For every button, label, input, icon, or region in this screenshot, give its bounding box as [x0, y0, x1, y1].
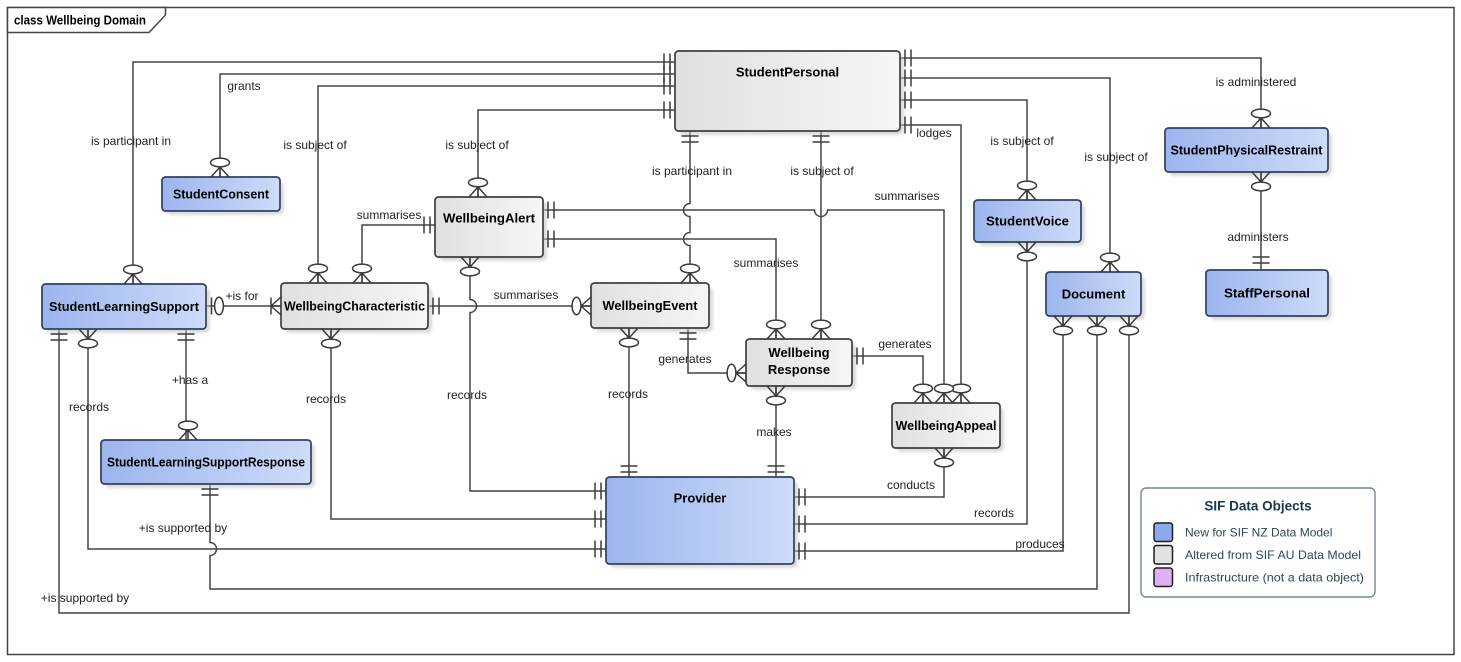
- one-and-only-one bars at WellbeingAlert right (summarises to appeal): [548, 202, 554, 219]
- entity WellbeingAppeal: [892, 403, 1004, 452]
- zero-or-many crow's foot at StudentConsent top: [211, 158, 230, 177]
- entity WellbeingResponse: [746, 339, 856, 390]
- label conducts: [887, 478, 935, 492]
- wire generates: WellbeingEvent to WellbeingResponse: [688, 328, 746, 373]
- wire is participant in: StudentPersonal to WellbeingEvent (jumps): [684, 131, 691, 283]
- one-and-only-one bars at StudentPersonal right (is subject of StudentVoice): [905, 92, 911, 109]
- wire lodges: StudentPersonal to WellbeingAppeal: [900, 125, 961, 403]
- label is participant in: [652, 164, 732, 178]
- one-and-only-one bars above StaffPersonal (administers): [1253, 257, 1270, 263]
- svg-text:lodges: lodges: [916, 126, 951, 140]
- wire is subject of: StudentPersonal to StudentVoice: [900, 100, 1027, 200]
- wire summarises: WellbeingCharacteristic to WellbeingEvent: [428, 305, 591, 307]
- svg-text:Wellbeing: Wellbeing: [768, 345, 829, 360]
- one-and-only-one bars at WellbeingAlert right (summarises to response): [548, 231, 554, 248]
- svg-text:is participant in: is participant in: [91, 134, 171, 148]
- label +has a: [172, 373, 209, 387]
- wire generates: WellbeingResponse to WellbeingAppeal: [852, 356, 923, 403]
- label is subject of: [283, 138, 347, 152]
- zero-or-many crow's foot at StudentPhysicalRestraint bottom: [1252, 172, 1271, 191]
- label lodges: [916, 126, 951, 140]
- label summarises: [357, 208, 422, 222]
- entity StudentLearningSupportResponse: [101, 440, 315, 488]
- label is participant in: [91, 134, 171, 148]
- svg-text:WellbeingCharacteristic: WellbeingCharacteristic: [284, 299, 425, 314]
- entity WellbeingEvent: [591, 283, 713, 332]
- label is subject of: [790, 164, 854, 178]
- one-and-only-one bars at StudentPersonal right (is administered): [905, 50, 911, 67]
- zero-or-many crow's foot at WellbeingResponse left: [727, 364, 746, 382]
- wire summarises: WellbeingAlert to WellbeingAppeal (jump): [543, 210, 944, 403]
- entity Provider: [606, 477, 798, 568]
- wire +is supported by: StudentLearningSupport to Document: [59, 316, 1129, 613]
- label makes: [756, 425, 791, 439]
- wire +is supported by: StudentLearningSupportResponse to Document (jump): [210, 316, 1097, 589]
- label records: [974, 506, 1014, 520]
- svg-text:WellbeingAppeal: WellbeingAppeal: [896, 418, 997, 433]
- svg-text:+has a: +has a: [172, 373, 209, 387]
- zero-or-many crow's foot at WellbeingEvent bottom: [620, 328, 639, 347]
- zero-or-many crow's foot at WellbeingAppeal top left: [914, 384, 933, 403]
- label generates: [658, 352, 711, 366]
- zero-or-many crow's foot at WellbeingEvent left: [572, 297, 591, 315]
- entity StudentPersonal: [675, 51, 904, 135]
- label +is supported by: [41, 591, 129, 605]
- svg-text:Response: Response: [768, 362, 830, 377]
- svg-text:makes: makes: [756, 425, 791, 439]
- entity WellbeingCharacteristic: [281, 283, 432, 333]
- svg-text:conducts: conducts: [887, 478, 935, 492]
- entity Document: [1046, 272, 1145, 320]
- zero-or-many crow's foot at WellbeingEvent top: [681, 264, 700, 283]
- one-and-only-one bars at WellbeingCharacteristic right (summarises): [433, 298, 439, 315]
- zero-or-many crow's foot at WellbeingAlert top: [469, 178, 488, 197]
- zero-or-many crow's foot at StudentLearningSupport top: [124, 265, 143, 284]
- zero-or-many crow's foot at WellbeingResponse bottom: [767, 386, 786, 405]
- one-and-only-one bars at StudentPersonal bottom (is participant in): [682, 136, 699, 142]
- svg-text:+is supported by: +is supported by: [139, 521, 227, 535]
- label is administered: [1216, 75, 1297, 89]
- label is subject of: [1084, 150, 1148, 164]
- one-or-many crow's foot at WellbeingCharacteristic left: [271, 297, 281, 315]
- zero-or-many crow's foot at StudentPhysicalRestraint top: [1252, 109, 1271, 128]
- wire grants: StudentPersonal to StudentConsent: [220, 74, 675, 177]
- wire is administered: StudentPersonal to StudentPhysicalRestraint: [900, 58, 1261, 128]
- wire produces: Document to Provider: [794, 316, 1063, 551]
- one-and-only-one bars at StudentPersonal left (is subject of WbC): [664, 78, 670, 95]
- svg-text:StudentLearningSupport: StudentLearningSupport: [49, 299, 200, 314]
- svg-text:records: records: [447, 388, 487, 402]
- entity WellbeingAlert: [435, 197, 547, 261]
- legend swatch purple: Infrastructure (not a data object): [1154, 568, 1364, 587]
- entity StudentConsent: [162, 177, 284, 215]
- wire records: StudentVoice to Provider: [794, 242, 1027, 524]
- label is subject of: [445, 138, 509, 152]
- wire is subject of: StudentPersonal to Document: [900, 78, 1110, 272]
- one-and-only-one bars at WellbeingResponse right (generates): [857, 348, 863, 365]
- svg-text:New for SIF NZ Data Model: New for SIF NZ Data Model: [1185, 526, 1332, 540]
- wire is subject of: StudentPersonal to WellbeingAlert: [478, 110, 675, 197]
- entity StudentVoice: [974, 200, 1085, 246]
- svg-text:SIF Data Objects: SIF Data Objects: [1204, 499, 1311, 514]
- label produces: [1015, 537, 1064, 551]
- one-and-only-one bars at StudentPersonal bottom (is subject of): [813, 136, 830, 142]
- zero-or-many crow's foot at Document bottom left: [1054, 316, 1073, 335]
- label +is supported by: [139, 521, 227, 535]
- entity StaffPersonal: [1206, 270, 1332, 320]
- zero-or-many crow's foot at WellbeingAppeal top middle: [935, 384, 954, 403]
- wire makes: WellbeingResponse to Provider: [775, 386, 777, 477]
- one-and-only-one bars at StudentPersonal right (is subject of Document): [905, 70, 911, 87]
- wire is subject of: StudentPersonal to WellbeingResponse: [820, 131, 822, 339]
- label is subject of: [990, 134, 1054, 148]
- svg-text:Infrastructure (not a data obj: Infrastructure (not a data object): [1185, 571, 1364, 585]
- frame tab: class Wellbeing Domain: [8, 8, 166, 33]
- svg-text:is subject of: is subject of: [283, 138, 347, 152]
- label summarises: [734, 256, 799, 270]
- svg-text:summarises: summarises: [357, 208, 422, 222]
- svg-text:records: records: [608, 387, 648, 401]
- svg-text:is participant in: is participant in: [652, 164, 732, 178]
- svg-text:records: records: [306, 392, 346, 406]
- wire records: WellbeingCharacteristic to Provider: [331, 329, 606, 519]
- svg-text:Provider: Provider: [674, 491, 727, 506]
- legend swatch gray: Altered from SIF AU Data Model: [1154, 546, 1361, 565]
- zero-or-many crow's foot at WellbeingCharacteristic bottom: [322, 329, 341, 348]
- svg-text:WellbeingAlert: WellbeingAlert: [443, 211, 536, 226]
- svg-text:generates: generates: [878, 337, 931, 351]
- zero-or-many crow's foot at WellbeingAppeal top right (lodges): [952, 384, 971, 403]
- svg-text:+is supported by: +is supported by: [41, 591, 129, 605]
- wire records: StudentLearningSupport to Provider: [88, 329, 606, 549]
- one-and-only-one bars at StudentPersonal left (grants): [664, 66, 670, 83]
- one-and-only-one bars at Provider top (records WellbeingEvent): [621, 466, 638, 472]
- one-and-only-one bars below WellbeingEvent (generates): [680, 333, 697, 339]
- label records: [608, 387, 648, 401]
- wire summarises: WellbeingAlert to WellbeingResponse: [543, 239, 776, 339]
- one-and-only-one bars at Provider left (records WellbeingCharacteristic): [595, 511, 601, 528]
- zero-or-many crow's foot at WellbeingCharacteristic top right: [353, 264, 372, 283]
- zero-or-many crow's foot at Document top: [1101, 253, 1120, 272]
- svg-text:is administered: is administered: [1216, 75, 1297, 89]
- svg-text:StudentPersonal: StudentPersonal: [736, 65, 839, 80]
- one-and-only-one bars at Provider right (records StudentVoice): [799, 516, 805, 533]
- label administers: [1227, 230, 1288, 244]
- label summarises: [494, 288, 559, 302]
- zero-or-many crow's foot at WellbeingResponse top left: [767, 320, 786, 339]
- svg-text:is subject of: is subject of: [990, 134, 1054, 148]
- svg-text:summarises: summarises: [734, 256, 799, 270]
- svg-text:records: records: [69, 400, 109, 414]
- wire is subject of: StudentPersonal to WellbeingCharacteristic: [318, 86, 675, 283]
- svg-text:class Wellbeing Domain: class Wellbeing Domain: [14, 14, 146, 28]
- one-and-only-one bars at Provider left (records WellbeingAlert): [595, 483, 601, 500]
- svg-text:+is for: +is for: [225, 289, 258, 303]
- zero-or-many crow's foot at WellbeingResponse top right: [812, 320, 831, 339]
- label +is for: [225, 289, 258, 303]
- zero-or-many crow's foot at Document bottom right: [1120, 316, 1139, 335]
- svg-text:produces: produces: [1015, 537, 1064, 551]
- wire summarises: WellbeingAlert to WellbeingCharacteristic: [362, 225, 435, 283]
- one-and-only-one bars at Provider left (records StudentLearningSupport): [595, 541, 601, 558]
- zero-or-one bar+circle at StudentLearningSupport right (+is for): [212, 297, 224, 314]
- wire conducts: WellbeingAppeal to Provider: [794, 448, 944, 497]
- label grants: [227, 79, 260, 93]
- one-and-only-one bars at Provider right (produces): [799, 543, 805, 560]
- one-and-only-one bars at StudentPersonal left (is participant in): [664, 54, 670, 71]
- svg-text:is subject of: is subject of: [445, 138, 509, 152]
- svg-text:WellbeingEvent: WellbeingEvent: [603, 298, 699, 313]
- one-and-only-one bars at StudentPersonal right (lodges): [905, 117, 911, 134]
- zero-or-many crow's foot at StudentVoice top: [1018, 181, 1037, 200]
- wire is participant in: StudentPersonal to StudentLearningSupport: [133, 62, 675, 284]
- one-and-only-one bars at Provider right (conducts): [799, 489, 805, 506]
- svg-text:is subject of: is subject of: [1084, 150, 1148, 164]
- svg-text:is subject of: is subject of: [790, 164, 854, 178]
- entity StudentPhysicalRestraint: [1165, 128, 1332, 176]
- wire records: WellbeingEvent to Provider: [628, 328, 630, 477]
- svg-text:StaffPersonal: StaffPersonal: [1224, 286, 1310, 301]
- legend SIF Data Objects: [1141, 488, 1375, 597]
- one-and-only-one bars at Provider top (makes): [768, 466, 785, 472]
- svg-text:StudentVoice: StudentVoice: [986, 214, 1069, 229]
- svg-text:generates: generates: [658, 352, 711, 366]
- svg-text:administers: administers: [1227, 230, 1288, 244]
- wire administers: StudentPhysicalRestraint to StaffPersonal: [1260, 172, 1262, 270]
- zero-or-many crow's foot at WellbeingCharacteristic top left: [309, 264, 328, 283]
- svg-text:summarises: summarises: [875, 189, 940, 203]
- label generates: [878, 337, 931, 351]
- svg-text:Altered from SIF AU Data Model: Altered from SIF AU Data Model: [1185, 548, 1361, 562]
- svg-text:grants: grants: [227, 79, 260, 93]
- label records: [447, 388, 487, 402]
- zero-or-many crow's foot at StudentLearningSupportResponse top: [179, 421, 198, 440]
- wire +is for: StudentLearningSupport to WellbeingCharacteristic: [206, 305, 281, 307]
- zero-or-many crow's foot at StudentVoice bottom: [1018, 242, 1037, 261]
- entity StudentLearningSupport: [42, 284, 210, 333]
- one-and-only-one bars below StudentLearningSupport (+is supported by): [51, 334, 68, 340]
- zero-or-many crow's foot at Document bottom middle: [1088, 316, 1107, 335]
- label records: [69, 400, 109, 414]
- svg-text:records: records: [974, 506, 1014, 520]
- legend swatch blue: New for SIF NZ Data Model: [1154, 523, 1332, 542]
- one-and-only-one bars at StudentPersonal left (is subject of WbAlert): [664, 102, 670, 119]
- zero-or-many crow's foot at WellbeingAlert bottom: [461, 257, 480, 276]
- svg-text:summarises: summarises: [494, 288, 559, 302]
- svg-text:StudentPhysicalRestraint: StudentPhysicalRestraint: [1171, 143, 1324, 158]
- wire +has a: StudentLearningSupport to StudentLearningSupportResponse: [185, 329, 187, 440]
- svg-text:StudentConsent: StudentConsent: [173, 187, 270, 202]
- one-and-only-one bars below StudentLearningSupportResponse (+is supported by): [202, 489, 219, 495]
- zero-or-many crow's foot at WellbeingAppeal bottom: [935, 448, 954, 467]
- label records: [306, 392, 346, 406]
- wire records: WellbeingAlert to Provider (jump): [470, 257, 606, 491]
- svg-text:StudentLearningSupportResponse: StudentLearningSupportResponse: [107, 455, 305, 470]
- one-and-only-one bars below StudentLearningSupport (+has a): [178, 334, 195, 340]
- zero-or-many crow's foot at StudentLearningSupport bottom (records): [79, 329, 98, 348]
- one-and-only-one bars at WellbeingAlert left (summarises): [424, 217, 430, 234]
- label summarises: [875, 189, 940, 203]
- svg-text:Document: Document: [1062, 287, 1126, 302]
